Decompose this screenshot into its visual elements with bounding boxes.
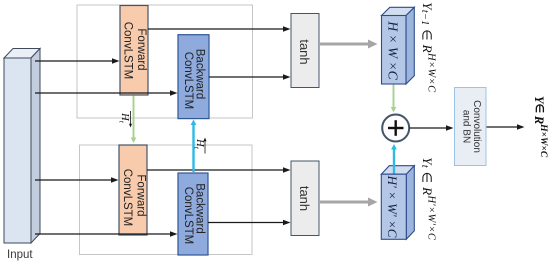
svg-text:H × W ×C: H × W ×C: [386, 20, 401, 80]
green arrow F1 to F2: [131, 96, 137, 144]
wire B2 to tanh T2: [208, 220, 291, 226]
svg-text:Convolution: Convolution: [471, 100, 482, 153]
ConvLSTM F1 box (top forward): [120, 6, 148, 96]
svg-text:tanh: tanh: [297, 39, 312, 64]
gray arrow T2 to block Y2: [319, 198, 378, 207]
svg-text:ConvLSTM: ConvLSTM: [182, 187, 194, 245]
wire conv box to output: [487, 124, 525, 130]
ConvLSTM F2 box (bottom forward): [119, 145, 147, 235]
svg-text:Backward: Backward: [194, 49, 206, 100]
cyan arrow B2 to B1: [191, 120, 197, 173]
svg-text:ConvLSTM: ConvLSTM: [182, 52, 194, 110]
top group frame: [77, 5, 253, 118]
tanh box T2 (bottom): [291, 161, 319, 236]
input 3D box: [4, 49, 40, 244]
conv+BN box: [455, 88, 487, 166]
svg-text:ConvLSTM: ConvLSTM: [122, 22, 134, 80]
ConvLSTM B1 box (top backward): [178, 35, 209, 119]
svg-text:H′ × W′ ×C: H′ × W′ ×C: [385, 175, 400, 238]
svg-text:Ht: Ht: [193, 138, 205, 150]
label Ht backward (rotated): [193, 138, 207, 154]
wire input to B1: [35, 90, 178, 96]
gray arrow T1 to block Y1: [319, 40, 378, 49]
svg-text:Y∈ RH×W×C: Y∈ RH×W×C: [532, 96, 548, 158]
svg-text:Yt−1 ∈ RH×W×C: Yt−1 ∈ RH×W×C: [420, 2, 438, 93]
svg-text:Backward: Backward: [194, 183, 206, 234]
wire F1 to tanh T1: [148, 26, 291, 32]
svg-text:Forward: Forward: [135, 174, 147, 216]
3D block Y1 (H x W x C): [382, 7, 415, 84]
wire input to B2: [35, 231, 178, 237]
wire adder to conv box: [410, 125, 454, 131]
svg-text:tanh: tanh: [297, 186, 312, 211]
adder node (plus circle): [382, 115, 409, 142]
svg-text:and BN: and BN: [461, 110, 472, 143]
wire input to F1: [35, 58, 120, 64]
svg-text:Yt ∈ RH′×W′×C: Yt ∈ RH′×W′×C: [420, 157, 438, 241]
ConvLSTM B2 box (bottom backward): [178, 173, 208, 255]
wire input to F2: [35, 177, 119, 183]
tanh box T1 (top): [291, 14, 319, 88]
wire F2 to tanh T2: [147, 167, 291, 173]
wire B1 to tanh T1: [209, 74, 291, 80]
svg-text:ConvLSTM: ConvLSTM: [121, 169, 133, 227]
green arrow Y1 to adder: [391, 85, 397, 113]
3D block Y2 (H' x W' x C): [381, 166, 414, 240]
svg-text:Input: Input: [7, 249, 33, 261]
label Ht forward (rotated): [118, 111, 132, 128]
bottom group frame: [80, 145, 253, 255]
svg-text:Ht: Ht: [118, 112, 130, 124]
svg-text:Forward: Forward: [135, 28, 147, 70]
cyan arrow Y2 to adder: [391, 144, 397, 174]
